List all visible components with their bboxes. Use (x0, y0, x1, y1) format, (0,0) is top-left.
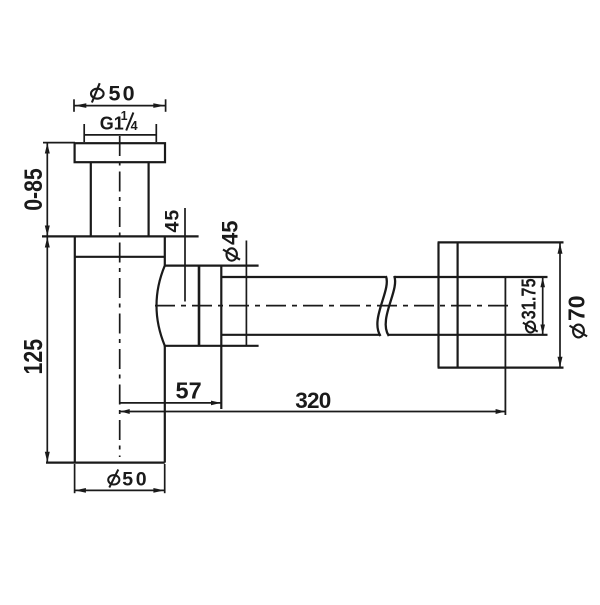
svg-text:4: 4 (131, 119, 138, 133)
svg-text:70: 70 (564, 295, 590, 321)
svg-text:31.75: 31.75 (517, 278, 540, 319)
svg-text:45: 45 (218, 221, 243, 245)
svg-text:50: 50 (109, 82, 137, 106)
svg-text:45: 45 (161, 209, 183, 233)
svg-text:0-85: 0-85 (19, 168, 47, 211)
svg-text:57: 57 (176, 378, 202, 404)
svg-text:50: 50 (122, 469, 149, 491)
svg-text:320: 320 (295, 388, 330, 413)
svg-text:125: 125 (19, 339, 49, 375)
svg-text:1: 1 (121, 109, 128, 123)
